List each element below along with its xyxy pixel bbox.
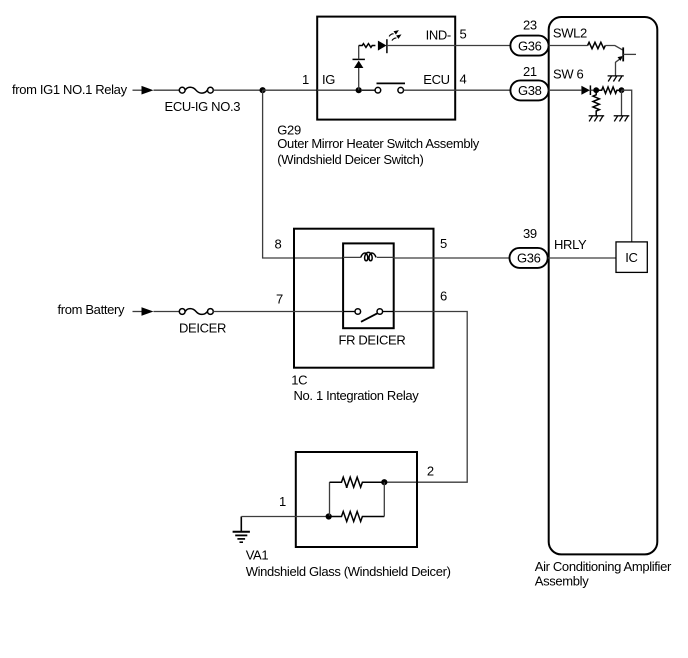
wire: node A down to relay pin 8	[263, 90, 344, 258]
relay inner box	[343, 243, 394, 328]
wire: relay pin5 to connector G36-39	[394, 257, 510, 259]
svg-text:G36: G36	[517, 251, 541, 266]
svg-text:ECU-IG NO.3: ECU-IG NO.3	[165, 99, 241, 114]
svg-text:Assembly: Assembly	[535, 574, 589, 589]
wire: right riser in glass	[383, 482, 385, 516]
resistor R-led	[359, 44, 376, 48]
svg-text:SWL2: SWL2	[553, 25, 587, 40]
junction inside switch box	[356, 87, 362, 93]
wire: resistor to transistor	[605, 46, 622, 50]
svg-text:VA1: VA1	[246, 548, 269, 563]
ground (node C)	[614, 116, 630, 122]
svg-text:from IG1 NO.1 Relay: from IG1 NO.1 Relay	[12, 82, 128, 97]
wire: left riser in glass	[329, 482, 331, 516]
svg-text:DEICER: DEICER	[179, 321, 226, 336]
svg-text:21: 21	[523, 64, 537, 79]
wire: arrow to fuse ECU-IG	[154, 89, 180, 91]
relay outer box 1C	[294, 229, 434, 368]
svg-text:4: 4	[460, 71, 467, 86]
wire: ground to glass pin 1 node	[241, 516, 328, 518]
wire: vertical junction up to diode	[358, 68, 360, 90]
svg-text:1C: 1C	[291, 373, 307, 388]
wire: fuse to relay pin 7	[213, 311, 343, 313]
transistor Q1	[616, 47, 637, 62]
svg-text:Air Conditioning Amplifier: Air Conditioning Amplifier	[535, 559, 672, 574]
svg-text:1: 1	[279, 494, 286, 509]
wire: G36-39 to IC	[548, 257, 616, 259]
diode D3	[581, 85, 590, 95]
node B junction	[593, 87, 599, 93]
svg-text:from Battery: from Battery	[58, 302, 125, 317]
svg-text:G36: G36	[518, 38, 542, 53]
ground (transistor emitter)	[608, 76, 624, 82]
svg-text:IG: IG	[322, 72, 335, 87]
svg-text:39: 39	[523, 226, 537, 241]
svg-text:2: 2	[427, 463, 434, 478]
wire: LED to box edge pin5	[387, 45, 455, 47]
resistor R-series (horizontal)	[596, 87, 621, 93]
switch assembly box G29	[317, 17, 455, 120]
svg-text:SW 6: SW 6	[553, 66, 584, 81]
wire: pin4 to connector G38	[455, 89, 510, 91]
fuse ECU-IG NO.3	[179, 87, 213, 93]
svg-text:Windshield Glass (Windshield D: Windshield Glass (Windshield Deicer)	[246, 564, 451, 579]
svg-text:IND-: IND-	[426, 27, 451, 42]
ground (glass, earth style)	[233, 517, 250, 543]
svg-text:IC: IC	[625, 250, 637, 265]
wire: node C to IC (right and down)	[622, 90, 632, 242]
wire: diode to node B	[590, 89, 596, 91]
resistor R-swl2	[588, 42, 606, 48]
feed arrow Battery	[133, 307, 154, 316]
resistor R-pulldown (vertical)	[593, 90, 599, 115]
svg-text:(Windshield Deicer Switch): (Windshield Deicer Switch)	[277, 152, 423, 167]
LED D2	[378, 39, 387, 53]
windshield glass box VA1	[296, 452, 417, 547]
resistor heater lower	[329, 512, 385, 522]
diode D1 (vertical, pointing up)	[353, 46, 365, 69]
connector G38 pin 21	[510, 80, 548, 100]
node A junction	[260, 87, 266, 93]
resistor heater upper	[330, 477, 385, 487]
wire: G36 into panel to resistor	[549, 45, 588, 47]
svg-text:G38: G38	[518, 83, 542, 98]
node E junction (glass upper-right)	[381, 479, 387, 485]
feed arrow IG1	[133, 86, 154, 95]
wire: pin5 to connector G36	[455, 45, 510, 47]
node C junction	[619, 87, 625, 93]
wire: G38 into panel to diode	[549, 89, 582, 91]
wire: arrow to fuse DEICER	[154, 311, 180, 313]
wire: node A to switch box pin 1	[263, 89, 317, 91]
wire: pin1 into box to junction	[317, 89, 359, 91]
svg-text:Outer Mirror Heater Switch Ass: Outer Mirror Heater Switch Assembly	[277, 136, 479, 151]
svg-text:1: 1	[302, 72, 309, 87]
ground (below pulldown)	[589, 116, 605, 122]
wire: relay pin6 right then down to glass pin 2	[384, 312, 467, 483]
svg-text:HRLY: HRLY	[554, 237, 587, 252]
push switch SW (momentary)	[362, 83, 405, 93]
svg-text:ECU: ECU	[423, 72, 449, 87]
wire: switch to box edge pin4	[404, 89, 456, 91]
svg-text:6: 6	[440, 289, 447, 304]
svg-text:FR DEICER: FR DEICER	[339, 332, 406, 347]
amplifier panel outline	[549, 17, 658, 554]
fuse DEICER	[179, 309, 213, 315]
relay switch contacts	[343, 309, 394, 322]
svg-text:5: 5	[460, 27, 467, 42]
wire: node C down to ground	[621, 90, 623, 116]
wire: emitter down	[615, 62, 617, 76]
connector G36 pin 23	[510, 36, 548, 56]
svg-text:8: 8	[275, 236, 282, 251]
IC box U1	[616, 242, 647, 273]
svg-text:7: 7	[276, 291, 283, 306]
svg-text:5: 5	[440, 236, 447, 251]
svg-text:23: 23	[523, 18, 537, 33]
connector G36 pin 39	[510, 248, 548, 268]
wire: fuse to node A	[213, 89, 262, 91]
node D junction (glass lower-left)	[326, 513, 332, 519]
relay coil	[343, 252, 394, 260]
svg-text:No. 1 Integration Relay: No. 1 Integration Relay	[294, 388, 420, 403]
LED light arrows	[389, 30, 401, 40]
